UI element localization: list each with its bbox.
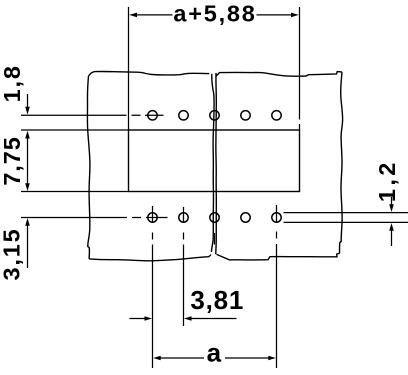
dimension 3,15 arrow up <box>25 218 30 226</box>
dimension a line left <box>160 357 204 359</box>
svg-text:3,15: 3,15 <box>0 228 25 281</box>
hole bottom row 5 <box>272 213 281 222</box>
dimension 3,81 stem right <box>191 318 237 320</box>
dimension 3,81 stem left outside <box>130 318 146 320</box>
extension line top dim left <box>128 7 130 130</box>
hole bottom row 3 (at break) <box>210 213 219 222</box>
center line bottom hole 1 vertical / extension for a and 3,81 <box>152 206 154 368</box>
svg-text:7,75: 7,75 <box>0 136 25 185</box>
hole top row 4 <box>241 111 250 120</box>
dimension 1,8 arrow down <box>25 107 30 115</box>
dimension 1,2 arrow down <box>389 204 394 212</box>
pcb outline right piece top edge <box>216 72 342 77</box>
pcb outline left piece bottom edge <box>89 255 211 261</box>
break line left <box>211 74 214 252</box>
pcb outline left piece top edge <box>89 71 210 76</box>
dimension 1,2 stem above <box>391 197 393 206</box>
extension line rect bottom left <box>21 191 129 193</box>
break line right <box>215 73 218 254</box>
hole diameter 1,2 tangent line bottom <box>284 221 408 223</box>
center line bottom hole 3 vertical dash <box>214 233 216 245</box>
hole top row 3 (at break) <box>210 111 219 120</box>
dimension 1,8 stem above <box>27 94 29 110</box>
svg-text:1,8: 1,8 <box>0 64 25 102</box>
hole top row 5 <box>272 111 281 120</box>
dimension 7,75 arrow up <box>25 131 30 139</box>
hole top row 2 <box>179 111 188 120</box>
center line bottom hole 2 vertical / extension for 3,81 <box>183 207 185 326</box>
pcb outline right piece right edge <box>340 72 343 253</box>
dimension a arrow right <box>268 356 276 361</box>
dimension a+5,88 line <box>132 14 296 16</box>
dimension a+5,88 arrow left <box>129 13 137 18</box>
center line bottom row horizontal <box>21 217 168 219</box>
dimension a arrow left <box>153 356 161 361</box>
dimension 7,75 line <box>27 137 29 185</box>
center line bottom hole 5 vertical / extension for a <box>276 205 278 368</box>
dimension 1,2 stem below <box>391 229 393 246</box>
dimension a+5,88 arrow right <box>291 13 299 18</box>
pcb outline right piece bottom edge <box>217 253 340 260</box>
extension line top dim right <box>299 7 301 130</box>
dimension a line right <box>225 357 270 359</box>
hole bottom row 4 <box>241 213 250 222</box>
pcb outline left piece left edge <box>87 76 90 259</box>
dimension 3,81 arrow right-pointing <box>145 316 153 321</box>
dimension 7,75 arrow down <box>25 183 30 191</box>
dimension 1,2 arrow up <box>389 223 394 231</box>
svg-text:a: a <box>207 338 222 368</box>
hole bottom row 1 <box>148 213 157 222</box>
hole bottom row 2 <box>179 213 188 222</box>
cutout rectangle <box>129 130 300 192</box>
svg-text:a+5,88: a+5,88 <box>173 1 256 27</box>
extension line rect top left <box>21 129 129 131</box>
dimension 3,15 stem below <box>27 224 29 268</box>
center line top row horizontal <box>21 114 164 116</box>
hole diameter 1,2 tangent line top <box>284 212 408 214</box>
svg-text:3,81: 3,81 <box>190 285 244 315</box>
svg-text:1,2: 1,2 <box>374 159 400 202</box>
dimension 3,81 arrow left-pointing <box>184 316 192 321</box>
hole top row 1 <box>148 111 157 120</box>
